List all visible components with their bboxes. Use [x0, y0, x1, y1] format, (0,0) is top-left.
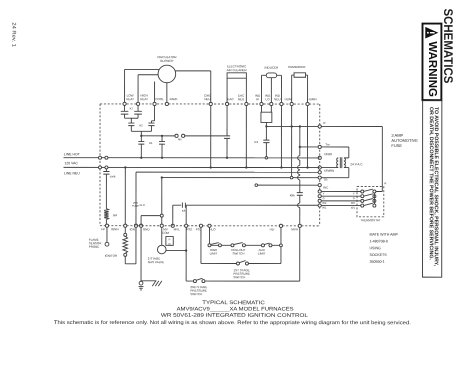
label R at thermostat: [384, 181, 386, 185]
wire R row: [266, 125, 318, 127]
limit switch chain wire: [209, 244, 279, 246]
label PS2: [186, 227, 192, 231]
wire HUM drop: [290, 106, 293, 179]
wire PS2 interior: [185, 205, 187, 224]
label LOW HEAT: [126, 94, 134, 102]
svg-text:HLI: HLI: [270, 227, 275, 231]
label 5M: [113, 213, 118, 217]
wire relay box to R row: [265, 122, 267, 127]
svg-text:350550-1: 350550-1: [369, 260, 384, 264]
label XFMR: [324, 152, 332, 156]
label HUMN: [308, 97, 317, 101]
label INC: [323, 186, 328, 190]
svg-text:IGNN: IGNN: [111, 227, 119, 231]
wire K7 bus: [125, 118, 139, 123]
label XFMRN: [324, 169, 334, 173]
wire blower to HIGH HEAT: [138, 75, 158, 103]
svg-text:K3: K3: [255, 140, 259, 144]
svg-text:HUM: HUM: [285, 97, 292, 101]
svg-text:HEAT: HEAT: [126, 97, 134, 101]
wire HLO drop: [208, 227, 210, 244]
connector plug M6: [175, 134, 185, 141]
inducer relay box: [261, 112, 272, 122]
wire MVH drop: [299, 227, 301, 281]
board outline dashed right: [319, 104, 321, 226]
label COOL: [155, 97, 164, 101]
label R terminal: [323, 121, 325, 125]
wire K2 bus: [131, 131, 151, 136]
label Tm: [325, 142, 330, 146]
svg-text:LINE NEU: LINE NEU: [64, 171, 80, 175]
label 2ND STAGE PRESSURE SWITCH: [190, 285, 207, 296]
label IGN: [130, 227, 135, 231]
transformer core: [340, 157, 342, 168]
label LINE NEU: [64, 171, 80, 175]
label K1: [149, 141, 153, 145]
wire PS2 drop: [185, 227, 187, 281]
svg-text:P: P: [169, 237, 171, 241]
chassis ground symbol: [152, 281, 162, 286]
caution text outline box: [423, 100, 442, 277]
wire GND interior link: [141, 216, 160, 226]
relay contact K2: [128, 123, 134, 131]
label HIGH HEAT: [140, 94, 148, 102]
label THERMOSTAT: [360, 218, 380, 222]
svg-text:INC: INC: [323, 186, 328, 190]
svg-text:5M: 5M: [113, 213, 118, 217]
wires board to thermostat: [321, 191, 361, 205]
svg-text:GND: GND: [143, 227, 151, 231]
wire TR interior row: [161, 176, 318, 178]
wire hopping vertical lower: [298, 195, 300, 224]
wire R row to Tm link: [299, 126, 301, 148]
humidifier box: [288, 65, 306, 77]
svg-text:K1: K1: [149, 141, 153, 145]
thermostat switches: [361, 189, 376, 207]
label AUX LIMIT: [258, 248, 266, 256]
relay contact K1: [138, 136, 144, 158]
label 2 STAGE GAS VALVE: [148, 257, 164, 265]
label IND LO: [265, 94, 271, 102]
ground wire: [141, 227, 156, 281]
wire INC row: [255, 184, 318, 187]
svg-text:K2: K2: [139, 123, 143, 127]
svg-text:G: G: [353, 196, 355, 200]
svg-text:SWITCH: SWITCH: [190, 292, 202, 296]
label G board: [323, 196, 325, 200]
node relay bus junction: [140, 135, 163, 137]
wire LINE NEU: [64, 166, 320, 168]
gas valve body: [157, 237, 173, 254]
wire MVL to K6: [173, 205, 181, 226]
node HLI junction: [280, 227, 283, 263]
label K6: [182, 209, 186, 213]
svg-text:TYPICAL SCHEMATIC: TYPICAL SCHEMATIC: [202, 300, 265, 306]
wire CIRC NEU drop: [210, 106, 212, 168]
wire blower to LOW HEAT: [125, 69, 160, 102]
svg-text:WR 50V61-289 INTEGRATED IGNITI: WR 50V61-289 INTEGRATED IGNITION CONTROL: [161, 313, 308, 319]
wires inducer to terminals: [261, 75, 281, 102]
svg-text:MVH: MVH: [291, 227, 298, 231]
svg-text:COM: COM: [162, 231, 170, 235]
label W1 tstat: [351, 206, 356, 210]
right board terminals: [318, 125, 321, 207]
transformer secondary coil: [344, 158, 346, 168]
svg-text:LIMIT: LIMIT: [210, 251, 218, 255]
svg-text:W2: W2: [351, 201, 356, 205]
label TR: [324, 178, 328, 182]
label Y tstat: [353, 191, 355, 195]
label IND HI: [255, 94, 261, 102]
label K2: [139, 123, 143, 127]
warning triangle icon: [425, 27, 438, 39]
wire COOL drop: [151, 106, 154, 124]
svg-text:M6: M6: [178, 138, 182, 141]
junction dots on LINE NEU: [210, 166, 309, 168]
svg-text:LIMIT: LIMIT: [258, 252, 266, 256]
label IGNN: [111, 227, 119, 231]
wire IGN interior: [136, 171, 321, 226]
svg-text:IGNITOR: IGNITOR: [105, 254, 118, 258]
label LINE HOT: [64, 152, 80, 156]
relay contact K8b: [297, 193, 303, 196]
label Y board: [323, 191, 325, 195]
wire HUMN drop: [307, 106, 309, 168]
label HLO: [209, 227, 216, 231]
svg-text:AMV9/ACV9______XA MODEL FURNAC: AMV9/ACV9______XA MODEL FURNACES: [177, 306, 295, 312]
svg-text:1-480708-0: 1-480708-0: [369, 239, 387, 243]
label PARK: [170, 97, 178, 101]
transformer primary coil: [337, 158, 339, 168]
svg-text:This schematic is for referenc: This schematic is for reference only. No…: [54, 320, 411, 326]
svg-text:GAS VALVE: GAS VALVE: [148, 260, 164, 264]
svg-text:R: R: [323, 121, 325, 125]
label CIRC NEU: [204, 94, 212, 102]
ignitor element: [123, 227, 136, 264]
svg-text:SCHEMATICS: SCHEMATICS: [441, 8, 455, 83]
wire connector to EAC contact: [185, 135, 224, 137]
svg-text:HEAT: HEAT: [140, 97, 148, 101]
wire W1 row: [186, 204, 318, 206]
wire blower to CIRC NEU: [175, 71, 210, 103]
label K8b: [290, 193, 295, 197]
wire IGNN drop: [124, 166, 126, 224]
wire LINE HOT: [64, 157, 320, 159]
capacitor 400B: [103, 169, 115, 179]
wire hopping vertical upper: [298, 147, 300, 193]
label G tstat: [353, 196, 355, 200]
svg-text:FUSE: FUSE: [391, 143, 402, 148]
wire relay bus horizontal: [141, 135, 175, 137]
label MATE WITH AMP note: [369, 233, 398, 264]
rotated page number 24 Rev. 1: [10, 22, 16, 47]
label ROLLOUT SWITCH: [231, 248, 245, 256]
svg-text:R: R: [384, 181, 386, 185]
relay contact K1b: [159, 136, 165, 158]
svg-text:SWITCH: SWITCH: [233, 251, 245, 255]
relay contact K7 high: [134, 106, 142, 119]
board outline dashed bottom: [100, 225, 320, 227]
svg-text:LO: LO: [266, 97, 271, 101]
label 24 VAC: [350, 162, 363, 166]
label MVH: [291, 227, 298, 231]
pressure switch 2nd stage: [186, 278, 300, 282]
line neu splice circles: [99, 166, 108, 169]
label FP: [101, 227, 105, 231]
svg-text:AIR CLEANER: AIR CLEANER: [227, 68, 248, 72]
wire blower to PARK: [166, 83, 168, 103]
wire fuse loop down: [376, 126, 382, 191]
svg-text:W1: W1: [351, 206, 356, 210]
svg-text:K6: K6: [182, 209, 186, 213]
svg-text:SWITCH: SWITCH: [233, 275, 245, 279]
rotated caution text: [428, 107, 439, 267]
gas valve wire: [161, 227, 163, 245]
svg-text:FP: FP: [101, 227, 105, 231]
rotated page tab text SCHEMATICS: [441, 8, 455, 83]
relay contact K2b: [148, 123, 154, 131]
svg-text:Y: Y: [353, 191, 355, 195]
wire XFMRN to transformer: [321, 167, 338, 169]
relay contact K6: [182, 203, 185, 208]
svg-text:XFMR: XFMR: [324, 152, 332, 156]
rollout switch: [231, 243, 246, 247]
svg-text:G: G: [323, 196, 325, 200]
title note line: [54, 320, 411, 326]
bottom board terminals: [105, 224, 301, 227]
gas valve output wire: [166, 249, 187, 251]
electronic air cleaner box: [227, 64, 248, 78]
wires humidifier to terminals: [292, 75, 308, 102]
aux limit switch: [261, 243, 272, 247]
junction dots on LINE HOT: [140, 157, 228, 159]
svg-text:PS2: PS2: [186, 227, 192, 231]
svg-text:COOL: COOL: [155, 97, 164, 101]
wire R into thermostat: [376, 190, 382, 192]
circulator blower motor: [157, 55, 177, 83]
wire EAC box to terminals: [227, 78, 246, 102]
svg-text:HI: HI: [256, 97, 259, 101]
flame sensor probe: [105, 227, 109, 246]
label GND: [143, 227, 151, 231]
relay coil K3: [263, 126, 269, 159]
label IGNITOR: [105, 254, 118, 258]
svg-text:HUMIDIFIER: HUMIDIFIER: [288, 65, 306, 69]
wire EAC NEU drop: [245, 106, 247, 168]
wire TR to transformer secondary: [321, 168, 349, 178]
svg-text:INDUCER: INDUCER: [265, 66, 280, 70]
title line 3: [161, 313, 308, 319]
svg-text:NEU: NEU: [204, 97, 210, 101]
label K7: [130, 107, 134, 111]
relay contact K7 low: [121, 106, 129, 119]
wire PS1 drop: [201, 227, 237, 263]
rotated WARNING text: [426, 41, 439, 97]
svg-text:LINE HOT: LINE HOT: [64, 152, 80, 156]
board outline dashed left: [99, 104, 101, 226]
label W2 board: [322, 201, 327, 205]
svg-text:400B: 400B: [110, 176, 116, 179]
svg-text:IGN: IGN: [130, 227, 135, 231]
label IND NEU: [274, 94, 281, 102]
title line 1: [202, 300, 265, 306]
label W1 board: [322, 206, 327, 210]
svg-text:HUMN: HUMN: [308, 97, 317, 101]
svg-text:GLO: GLO: [140, 204, 145, 207]
svg-text:THERMOSTAT: THERMOSTAT: [360, 218, 380, 222]
svg-text:NEU: NEU: [238, 97, 244, 101]
earth ground symbol: [139, 281, 144, 290]
label fuse glo: [132, 202, 145, 208]
svg-text:W2: W2: [322, 201, 327, 205]
line hot splice circles: [99, 156, 108, 159]
wire blower to COOL: [154, 82, 156, 103]
svg-text:24 V.A.C.: 24 V.A.C.: [350, 162, 363, 166]
inducer motor: [265, 66, 280, 78]
label 3 AMP AUTOMOTIVE FUSE: [391, 133, 418, 148]
title line 2: [177, 306, 295, 312]
svg-text:W1: W1: [322, 206, 327, 210]
thermostat dashed box: [357, 186, 384, 216]
thermostat right bus: [373, 193, 375, 204]
label 120 VAC: [65, 161, 79, 165]
pressure switch 1st stage: [236, 261, 281, 265]
svg-text:24 Rev. 1: 24 Rev. 1: [10, 22, 16, 47]
svg-text:PARK: PARK: [170, 97, 178, 101]
svg-text:K8b: K8b: [290, 193, 295, 197]
label PS1: [196, 227, 202, 231]
label HLI: [270, 227, 275, 231]
svg-text:BLOWER: BLOWER: [160, 59, 174, 63]
label EAC NEU: [238, 94, 245, 102]
svg-text:Y: Y: [323, 191, 325, 195]
label HUM: [285, 97, 292, 101]
label EAC: [227, 97, 234, 101]
board outline dashed top: [100, 103, 320, 105]
top board terminals: [123, 102, 309, 105]
svg-text:K7: K7: [130, 107, 134, 111]
svg-text:MATE WITH AMP: MATE WITH AMP: [369, 233, 398, 237]
label FLAME SENSOR PROBE: [89, 238, 103, 249]
label K3: [255, 140, 259, 144]
svg-text:Tm: Tm: [325, 142, 330, 146]
label MVL: [174, 227, 181, 231]
svg-text:EAC: EAC: [227, 97, 234, 101]
wire R to fuse: [321, 125, 382, 127]
svg-text:XFMRN: XFMRN: [324, 169, 334, 173]
wire Tm row: [300, 146, 318, 148]
svg-text:USING: USING: [369, 246, 381, 250]
svg-text:120 VAC: 120 VAC: [65, 161, 79, 165]
wire IND NEU drop: [280, 106, 282, 168]
resistor 5M: [104, 174, 108, 224]
svg-text:SOCKETS: SOCKETS: [369, 253, 387, 257]
svg-text:FUSE: FUSE: [132, 205, 139, 208]
svg-text:HLO: HLO: [209, 227, 216, 231]
label W2 tstat: [351, 201, 356, 205]
svg-text:HI: HI: [168, 242, 171, 246]
svg-text:NEU: NEU: [274, 97, 280, 101]
high limit switch: [208, 243, 222, 247]
svg-text:PROBE: PROBE: [89, 245, 100, 249]
wire Tm to transformer secondary: [321, 147, 349, 158]
wire MV COM vertical: [160, 178, 163, 225]
svg-text:TO AVOID POSSIBLE ELECTRICAL S: TO AVOID POSSIBLE ELECTRICAL SHOCK, PERS…: [428, 107, 439, 267]
label HIGH LIMIT: [210, 248, 218, 256]
svg-text:MVL: MVL: [174, 227, 181, 231]
svg-text:WARNING: WARNING: [426, 41, 439, 97]
warning label box: [422, 24, 441, 101]
relay contact EAC feed: [224, 106, 230, 158]
svg-text:TR: TR: [324, 178, 328, 182]
label MV COM: [162, 227, 170, 235]
wires inducer terminals to relay box: [261, 106, 271, 113]
label 1ST STAGE PRESSURE SWITCH: [233, 268, 250, 279]
